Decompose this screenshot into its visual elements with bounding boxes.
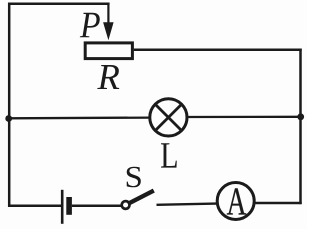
switch S pivot circle <box>122 201 130 209</box>
wire resistor to right side <box>134 49 302 52</box>
label P <box>80 13 100 38</box>
wire top-left horizontal <box>8 3 110 6</box>
battery long plate <box>61 190 64 224</box>
wire bottom left segment <box>8 205 61 208</box>
slider arrow P head <box>103 22 114 40</box>
ammeter A circle <box>217 183 254 220</box>
wire battery to switch <box>72 204 122 207</box>
wire slider vertical drop <box>107 3 109 25</box>
switch S blade <box>129 191 154 204</box>
wire left vertical <box>8 3 11 207</box>
wire switch to ammeter <box>157 204 217 205</box>
node junction dot right <box>297 113 304 120</box>
label S <box>127 167 141 188</box>
resistor R box <box>85 43 132 59</box>
lamp L cross stroke 2 <box>155 104 181 130</box>
ammeter label A <box>227 188 246 214</box>
label R <box>97 65 119 89</box>
battery short plate <box>66 197 72 215</box>
label L <box>161 143 177 167</box>
wire middle right segment <box>186 116 302 118</box>
node junction dot left <box>5 115 12 122</box>
lamp L cross stroke 1 <box>155 104 181 130</box>
wire ammeter to bottom-right corner <box>256 202 302 204</box>
lamp L circle <box>150 99 187 136</box>
wire middle left segment <box>8 116 151 119</box>
wire right vertical <box>299 49 302 205</box>
